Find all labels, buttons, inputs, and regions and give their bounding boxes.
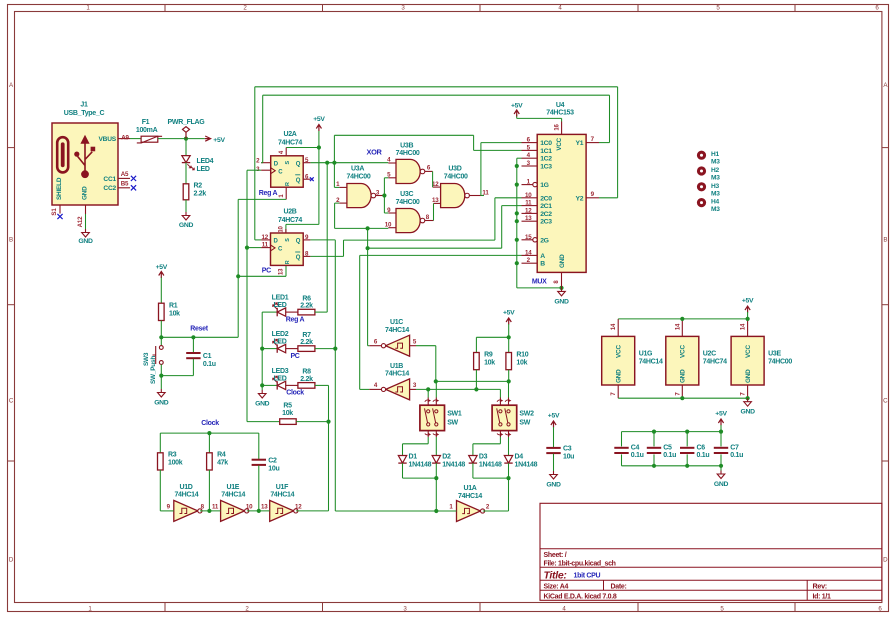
svg-text:+5V: +5V: [511, 102, 523, 109]
svg-text:2C0: 2C0: [540, 195, 552, 202]
svg-text:10k: 10k: [484, 359, 495, 366]
svg-text:CC2: CC2: [103, 185, 116, 192]
svg-text:U2A: U2A: [283, 131, 296, 138]
svg-text:Y1: Y1: [575, 140, 583, 147]
svg-text:Q: Q: [296, 161, 301, 167]
svg-text:U1D: U1D: [179, 484, 192, 491]
svg-text:GND: GND: [680, 369, 687, 383]
svg-text:Reg A: Reg A: [259, 190, 278, 197]
svg-text:0.1u: 0.1u: [663, 452, 676, 459]
svg-text:File: 1bit-cpu.kicad_sch: File: 1bit-cpu.kicad_sch: [544, 561, 616, 568]
svg-text:GND: GND: [154, 400, 169, 407]
svg-text:S: S: [285, 238, 291, 242]
svg-text:16: 16: [554, 124, 560, 131]
svg-text:1C3: 1C3: [540, 164, 552, 171]
svg-text:14: 14: [675, 323, 681, 330]
svg-text:Size: A4: Size: A4: [544, 584, 569, 591]
svg-text:C7: C7: [730, 444, 739, 451]
svg-text:74HC14: 74HC14: [639, 358, 663, 365]
svg-text:GND: GND: [179, 222, 194, 229]
svg-text:R4: R4: [217, 452, 226, 459]
svg-text:M3: M3: [711, 190, 720, 197]
svg-text:13: 13: [261, 504, 268, 511]
svg-text:D2: D2: [442, 453, 451, 460]
svg-text:100mA: 100mA: [136, 127, 158, 134]
svg-text:U3E: U3E: [768, 350, 781, 357]
svg-text:VBUS: VBUS: [98, 136, 116, 143]
svg-text:H4: H4: [711, 199, 720, 206]
svg-text:1C0: 1C0: [540, 140, 552, 147]
svg-text:Sheet: /: Sheet: /: [544, 552, 567, 559]
svg-text:R10: R10: [516, 351, 528, 358]
svg-text:D: D: [9, 556, 14, 563]
svg-text:B: B: [540, 261, 545, 268]
svg-text:74HC74: 74HC74: [703, 358, 727, 365]
svg-text:GND: GND: [255, 400, 270, 407]
svg-text:GND: GND: [546, 481, 561, 488]
svg-text:74HC153: 74HC153: [546, 110, 574, 117]
svg-text:1C1: 1C1: [540, 148, 552, 155]
svg-text:+5V: +5V: [742, 298, 754, 305]
svg-text:10u: 10u: [563, 454, 574, 461]
svg-text:74HC14: 74HC14: [385, 371, 409, 378]
svg-text:10: 10: [525, 192, 532, 199]
svg-text:A12: A12: [77, 216, 84, 228]
svg-text:Id: 1/1: Id: 1/1: [813, 594, 832, 601]
svg-text:B5: B5: [121, 181, 129, 188]
svg-text:SW3: SW3: [143, 352, 150, 366]
svg-text:M3: M3: [711, 175, 720, 182]
svg-text:Rev:: Rev:: [813, 582, 827, 591]
svg-text:GND: GND: [740, 409, 755, 416]
svg-text:Q: Q: [296, 239, 301, 245]
svg-text:GND: GND: [745, 369, 752, 383]
svg-text:1N4148: 1N4148: [409, 461, 432, 468]
svg-text:R6: R6: [302, 295, 311, 302]
svg-text:KiCad E.D.A. kicad 7.0.8: KiCad E.D.A. kicad 7.0.8: [544, 594, 617, 601]
svg-text:LED: LED: [197, 166, 210, 173]
svg-text:VCC: VCC: [556, 137, 563, 150]
svg-text:C: C: [883, 397, 888, 404]
svg-text:47k: 47k: [217, 460, 228, 467]
svg-text:74HC14: 74HC14: [221, 492, 245, 499]
svg-text:GND: GND: [615, 369, 622, 383]
svg-text:2.2k: 2.2k: [300, 376, 313, 383]
svg-text:12: 12: [295, 504, 302, 511]
svg-text:74HC74: 74HC74: [278, 217, 302, 224]
svg-text:74HC14: 74HC14: [458, 493, 482, 500]
svg-text:SW: SW: [447, 420, 458, 427]
svg-text:U1G: U1G: [639, 350, 653, 357]
svg-text:GND: GND: [554, 298, 569, 305]
svg-text:1N4148: 1N4148: [442, 461, 465, 468]
svg-text:H1: H1: [711, 151, 720, 158]
svg-text:10u: 10u: [268, 465, 279, 472]
svg-text:11: 11: [525, 200, 532, 207]
svg-text:13: 13: [432, 197, 439, 204]
svg-text:R1: R1: [169, 303, 178, 310]
svg-text:1G: 1G: [540, 182, 548, 189]
svg-text:13: 13: [279, 268, 285, 275]
svg-text:SW1: SW1: [447, 411, 462, 418]
svg-text:PC: PC: [290, 353, 299, 360]
svg-text:U3B: U3B: [400, 142, 413, 149]
svg-text:R5: R5: [283, 402, 292, 409]
svg-text:2.2k: 2.2k: [300, 339, 313, 346]
svg-text:PC: PC: [262, 268, 271, 275]
svg-text:15: 15: [525, 234, 532, 241]
svg-text:10k: 10k: [516, 359, 527, 366]
svg-text:74HC14: 74HC14: [174, 492, 198, 499]
svg-text:+5V: +5V: [548, 413, 560, 420]
svg-text:74HC14: 74HC14: [270, 492, 294, 499]
svg-text:74HC14: 74HC14: [385, 327, 409, 334]
svg-text:R: R: [285, 182, 291, 186]
svg-text:Date:: Date:: [611, 584, 627, 591]
svg-text:Clock: Clock: [201, 420, 219, 427]
svg-text:LED4: LED4: [197, 158, 214, 165]
svg-text:74HC00: 74HC00: [347, 173, 371, 180]
svg-text:GND: GND: [78, 238, 93, 245]
svg-text:R3: R3: [168, 452, 177, 459]
svg-text:C2: C2: [268, 458, 277, 465]
svg-text:U1F: U1F: [276, 484, 289, 491]
svg-text:SW2: SW2: [519, 411, 534, 418]
svg-text:U3C: U3C: [400, 191, 413, 198]
svg-text:M3: M3: [711, 206, 720, 213]
svg-text:M3: M3: [711, 159, 720, 166]
svg-text:0.1u: 0.1u: [203, 361, 216, 368]
svg-text:USB_Type_C: USB_Type_C: [64, 110, 105, 117]
svg-text:S: S: [285, 161, 291, 165]
svg-text:14: 14: [525, 249, 532, 256]
svg-text:J1: J1: [80, 102, 88, 109]
svg-text:U2B: U2B: [283, 209, 296, 216]
svg-text:Reg A: Reg A: [286, 316, 305, 323]
svg-text:11: 11: [262, 242, 269, 249]
svg-text:11: 11: [212, 504, 219, 511]
svg-text:D: D: [883, 556, 888, 563]
svg-text:U1E: U1E: [226, 484, 239, 491]
svg-text:74HC00: 74HC00: [768, 358, 792, 365]
svg-text:12: 12: [525, 207, 532, 214]
svg-text:SW: SW: [519, 420, 530, 427]
svg-text:U2C: U2C: [703, 350, 716, 357]
svg-text:+5V: +5V: [503, 310, 515, 317]
svg-text:2C3: 2C3: [540, 219, 552, 226]
svg-text:10: 10: [279, 226, 285, 233]
svg-text:U1C: U1C: [390, 319, 403, 326]
svg-text:LED3: LED3: [272, 368, 289, 375]
svg-text:2C2: 2C2: [540, 211, 552, 218]
svg-text:Reset: Reset: [190, 325, 209, 332]
svg-text:SW_Push: SW_Push: [150, 356, 157, 384]
svg-text:VCC: VCC: [680, 345, 687, 358]
svg-text:Q: Q: [296, 255, 301, 261]
svg-text:Clock: Clock: [286, 390, 304, 397]
svg-text:2C1: 2C1: [540, 203, 552, 210]
svg-text:10: 10: [385, 222, 392, 229]
svg-text:2G: 2G: [540, 237, 548, 244]
svg-text:XOR: XOR: [366, 148, 382, 157]
svg-text:100k: 100k: [168, 460, 183, 467]
svg-text:D4: D4: [515, 453, 524, 460]
svg-text:PWR_FLAG: PWR_FLAG: [168, 119, 206, 126]
svg-text:C5: C5: [663, 444, 672, 451]
svg-text:R: R: [285, 260, 291, 264]
svg-text:LED: LED: [273, 376, 286, 383]
svg-text:Y2: Y2: [575, 195, 583, 202]
svg-text:B: B: [9, 237, 13, 244]
svg-text:+5V: +5V: [313, 116, 325, 123]
svg-text:S1: S1: [51, 208, 58, 216]
svg-text:CC1: CC1: [103, 176, 116, 183]
svg-text:B: B: [883, 237, 887, 244]
svg-text:C4: C4: [631, 444, 640, 451]
svg-text:C: C: [9, 397, 14, 404]
svg-text:Q: Q: [296, 178, 301, 184]
svg-text:74HC74: 74HC74: [278, 140, 302, 147]
svg-text:LED1: LED1: [272, 295, 289, 302]
svg-text:12: 12: [432, 181, 439, 188]
svg-text:R8: R8: [302, 369, 311, 376]
svg-text:0.1u: 0.1u: [697, 452, 710, 459]
svg-text:D1: D1: [409, 453, 418, 460]
svg-text:D3: D3: [479, 453, 488, 460]
svg-text:+5V: +5V: [213, 137, 225, 144]
svg-text:74HC00: 74HC00: [396, 150, 420, 157]
svg-text:H2: H2: [711, 167, 720, 174]
svg-text:14: 14: [741, 323, 747, 330]
svg-text:A9: A9: [121, 134, 129, 141]
svg-text:+5V: +5V: [156, 264, 168, 271]
svg-text:0.1u: 0.1u: [730, 452, 743, 459]
svg-text:1N4148: 1N4148: [515, 461, 538, 468]
svg-text:74HC00: 74HC00: [396, 199, 420, 206]
svg-text:SHIELD: SHIELD: [56, 177, 63, 200]
svg-text:U4: U4: [556, 102, 565, 109]
svg-text:10k: 10k: [282, 410, 293, 417]
svg-text:R7: R7: [302, 332, 311, 339]
svg-text:0.1u: 0.1u: [631, 452, 644, 459]
svg-text:U3D: U3D: [448, 166, 461, 173]
svg-text:H3: H3: [711, 183, 720, 190]
svg-text:F1: F1: [142, 119, 150, 126]
svg-text:GND: GND: [714, 481, 729, 488]
svg-text:13: 13: [525, 215, 532, 222]
svg-text:LED2: LED2: [272, 331, 289, 338]
svg-text:2.2k: 2.2k: [300, 303, 313, 310]
svg-text:LED: LED: [273, 302, 286, 309]
svg-text:GND: GND: [559, 254, 566, 268]
svg-text:A: A: [540, 253, 545, 260]
svg-text:+5V: +5V: [715, 411, 727, 418]
svg-text:GND: GND: [82, 186, 89, 200]
svg-text:C1: C1: [203, 353, 212, 360]
svg-text:VCC: VCC: [615, 345, 622, 358]
svg-text:U1A: U1A: [463, 485, 476, 492]
svg-text:1bit CPU: 1bit CPU: [574, 573, 601, 580]
svg-text:C3: C3: [563, 446, 572, 453]
svg-text:A5: A5: [121, 171, 129, 178]
svg-text:U1B: U1B: [390, 363, 403, 370]
svg-text:14: 14: [611, 323, 617, 330]
svg-text:2.2k: 2.2k: [194, 190, 207, 197]
svg-text:R9: R9: [484, 351, 493, 358]
svg-text:Title:: Title:: [544, 569, 567, 581]
svg-text:U3A: U3A: [351, 166, 364, 173]
svg-text:12: 12: [262, 234, 269, 241]
svg-text:1N4148: 1N4148: [479, 461, 502, 468]
svg-text:74HC00: 74HC00: [444, 173, 468, 180]
svg-text:10k: 10k: [169, 311, 180, 318]
svg-text:VCC: VCC: [745, 345, 752, 358]
svg-text:LED: LED: [273, 339, 286, 346]
svg-text:MUX: MUX: [532, 279, 547, 286]
svg-text:10: 10: [246, 504, 253, 511]
svg-text:R2: R2: [194, 182, 203, 189]
svg-text:1C2: 1C2: [540, 156, 552, 163]
svg-text:C6: C6: [697, 444, 706, 451]
